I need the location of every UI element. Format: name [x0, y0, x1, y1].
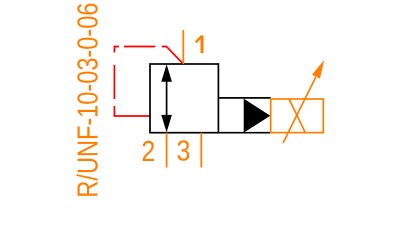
port label 1: [196, 35, 202, 53]
valve body square: [150, 64, 218, 133]
wire: pilot top edge dash 1: [114, 46, 119, 48]
wire: pilot left edge dash 1: [113, 46, 115, 53]
wire: port 1 line (orange): [182, 30, 184, 64]
wire: channel bottom line to solenoid: [218, 132, 270, 134]
wire: port 2 line (orange): [166, 133, 168, 168]
solenoid diagonal stroke: [289, 99, 305, 133]
wire: channel top line to solenoid: [218, 97, 270, 99]
svg-text:2: 2: [141, 135, 155, 167]
adjustability arrow head: [312, 60, 324, 79]
wire: pilot diagonal to port 1 junction: [162, 47, 184, 65]
port label 3: [177, 135, 191, 167]
svg-text:R/UNF-10-03-0-06: R/UNF-10-03-0-06: [72, 3, 104, 198]
wire: pilot top edge dash 2: [124, 46, 155, 48]
pilot line dashed box (red): [114, 46, 184, 116]
svg-text:3: 3: [177, 135, 191, 167]
pressure adjustment double arrow: [161, 64, 172, 132]
adjustability arrow shaft: [283, 77, 316, 143]
wire: port 3 line (orange): [200, 133, 202, 168]
proportional solenoid box: [271, 99, 324, 133]
wire: pilot bottom edge to valve body: [114, 115, 150, 117]
port label 2: [141, 135, 155, 167]
wire: pilot left edge dash 3: [113, 106, 115, 116]
flow direction triangle: [244, 99, 271, 133]
wire: pilot left edge dash 2: [113, 65, 115, 99]
